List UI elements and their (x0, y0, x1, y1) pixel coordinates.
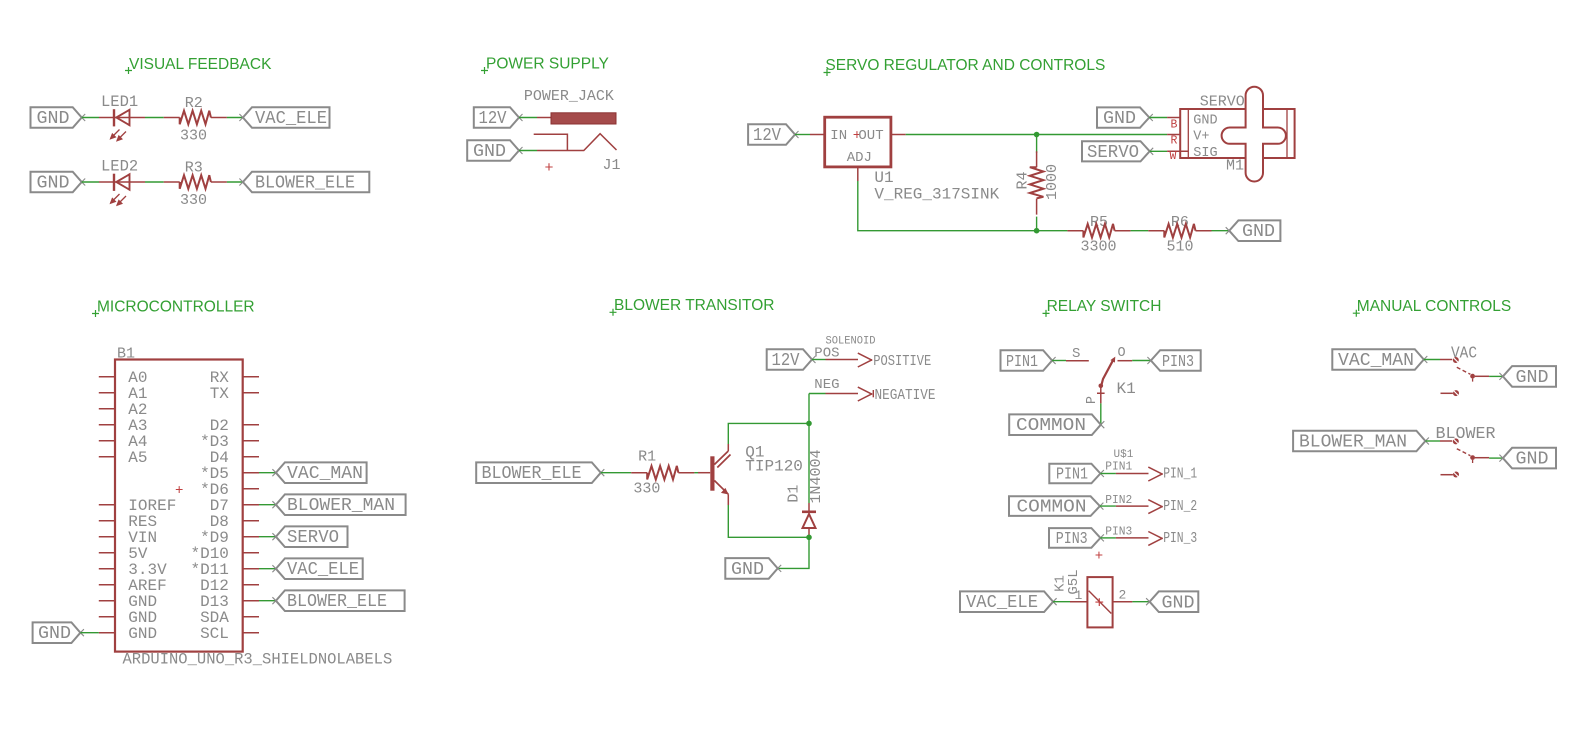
LED LED2 (99, 158, 145, 207)
net flag VAC_MAN (switch) (1332, 349, 1427, 371)
section title RELAY SWITCH (1043, 298, 1162, 317)
svg-text:PIN3: PIN3 (1056, 530, 1088, 549)
svg-text:MANUAL CONTROLS: MANUAL CONTROLS (1357, 298, 1511, 315)
supply flag 12V (solenoid positive) (767, 349, 816, 371)
servo connector M1 SERVO (1170, 94, 1295, 175)
svg-text:J1: J1 (603, 157, 621, 174)
svg-text:S: S (1072, 346, 1080, 362)
svg-text:330: 330 (180, 192, 207, 209)
svg-text:SCL: SCL (200, 625, 229, 643)
wire switch to GND (1489, 375, 1503, 377)
wire R6 to GND (1212, 230, 1230, 232)
transistor Q1 TIP120 (698, 443, 803, 505)
svg-text:GND: GND (38, 624, 71, 644)
svg-text:COMMON: COMMON (1016, 416, 1086, 436)
wire 12V to power jack (519, 117, 551, 119)
relay switch contacts K1 (1085, 346, 1136, 404)
wire 12V to U1 IN (795, 134, 825, 136)
svg-text:NEG: NEG (814, 377, 839, 393)
net flag BLOWER_ELE (to Q1 base) (476, 462, 604, 484)
svg-text:BLOWER TRANSITOR: BLOWER TRANSITOR (614, 297, 774, 314)
svg-text:12V: 12V (772, 351, 800, 371)
svg-text:BLOWER_ELE: BLOWER_ELE (255, 174, 355, 194)
svg-text:PIN3: PIN3 (1162, 353, 1194, 372)
wire GND to servo B pin (1149, 117, 1180, 119)
pin arrow POSITIVE (858, 353, 932, 370)
pin PIN1 of U$1 (1100, 460, 1197, 483)
net flag SERVO (servo signal) (1082, 141, 1153, 163)
svg-text:GND: GND (1516, 450, 1549, 470)
svg-text:MICROCONTROLLER: MICROCONTROLLER (97, 298, 255, 315)
wire SERVO to servo SIG pin (1150, 150, 1189, 152)
svg-text:VAC_ELE: VAC_ELE (287, 560, 359, 580)
net flag PIN1 (switch S) (1001, 350, 1056, 372)
svg-text:B: B (1171, 119, 1178, 132)
wire R4 to bottom junction (1036, 217, 1038, 231)
connector U$1 label (1114, 449, 1134, 461)
svg-text:3300: 3300 (1081, 239, 1117, 256)
svg-text:12V: 12V (753, 126, 781, 146)
junction node (collector / NEG / D1) (806, 421, 812, 427)
junction node (emitter / D1 / GND) (806, 535, 812, 541)
ground flag GND (power jack) (467, 140, 522, 162)
svg-text:NEGATIVE: NEGATIVE (875, 388, 936, 404)
pin arrow NEGATIVE (858, 387, 936, 404)
ground flag GND (Q1 emitter) (725, 558, 781, 580)
svg-text:GND: GND (473, 142, 506, 162)
ground flag GND (to LED1) (31, 107, 86, 129)
svg-text:R3: R3 (185, 160, 203, 177)
svg-text:K1: K1 (1117, 380, 1136, 398)
svg-text:BLOWER_ELE: BLOWER_ELE (482, 464, 582, 484)
ground flag GND (BLOWER switch) (1499, 448, 1556, 470)
svg-text:PIN2: PIN2 (1105, 493, 1132, 507)
svg-text:COMMON: COMMON (1017, 497, 1087, 517)
wire junction to GND (778, 537, 809, 568)
svg-text:LED1: LED1 (101, 93, 138, 111)
svg-text:1N4004: 1N4004 (808, 449, 825, 503)
svg-text:TX: TX (210, 385, 230, 403)
svg-text:A5: A5 (128, 449, 147, 467)
wire R5 to R6 (1131, 230, 1149, 232)
section title BLOWER TRANSITOR (610, 297, 775, 316)
svg-text:ADJ: ADJ (847, 150, 872, 166)
switch VAC (manual) (1441, 343, 1490, 396)
node POS wire to solenoid positive (812, 346, 858, 362)
svg-text:VAC_MAN: VAC_MAN (1338, 351, 1414, 371)
svg-text:+: + (1095, 549, 1103, 565)
svg-text:GND: GND (1242, 222, 1275, 242)
wire junction to R5 (1037, 230, 1068, 232)
diode D1 1N4004 (786, 449, 825, 537)
svg-text:+: + (1095, 595, 1105, 613)
wire BLOWER_ELE to R1 (601, 472, 631, 474)
junction node (ADJ / R4 / R5) (1034, 228, 1040, 234)
wire LED2 to R3 (145, 181, 164, 183)
svg-text:D1: D1 (786, 485, 803, 503)
wire coil pin 2 to GND (1113, 601, 1150, 603)
wire LED1 to R2 (145, 117, 164, 119)
microcontroller B1 ARDUINO_UNO_R3_SHIELDNOLABELS (115, 346, 392, 669)
svg-text:SIG: SIG (1193, 146, 1217, 161)
svg-text:GND: GND (1162, 594, 1195, 614)
svg-text:O: O (1118, 346, 1126, 361)
net flag VAC_ELE (B1) (272, 558, 362, 580)
resistor R4 1000 (1015, 151, 1062, 214)
wire R1 to Q1 base (694, 472, 698, 474)
net flag BLOWER_ELE (239, 172, 369, 194)
svg-text:POSITIVE: POSITIVE (873, 354, 931, 370)
svg-text:PIN3: PIN3 (1105, 525, 1132, 539)
svg-text:TIP120: TIP120 (745, 457, 803, 475)
svg-text:1000: 1000 (1044, 164, 1061, 200)
resistor R2 (164, 95, 227, 145)
wire R2 to VAC_ELE (227, 117, 243, 119)
wire GND to LED1 (82, 117, 99, 119)
svg-text:2: 2 (1119, 588, 1127, 603)
svg-text:BLOWER_MAN: BLOWER_MAN (287, 496, 395, 516)
svg-text:V+: V+ (1193, 130, 1209, 145)
wire U1 OUT to junction and servo V+ (906, 134, 1180, 136)
svg-text:GND: GND (1103, 109, 1136, 129)
svg-text:GND: GND (731, 560, 764, 580)
svg-text:SERVO REGULATOR AND CONTROLS: SERVO REGULATOR AND CONTROLS (825, 57, 1105, 74)
wire junction to D1 (808, 423, 810, 503)
connector J1 POWER_JACK (524, 88, 621, 177)
wire switch to GND (1489, 457, 1503, 459)
resistor R3 (164, 160, 227, 210)
svg-text:1: 1 (1075, 588, 1083, 603)
ground flag GND (relay coil) (1146, 591, 1198, 613)
net flag VAC_ELE (relay coil) (960, 591, 1057, 613)
ground flag GND (VAC switch) (1499, 366, 1556, 388)
svg-text:GND: GND (37, 174, 70, 194)
svg-text:SERVO: SERVO (1087, 143, 1139, 163)
wire GND to LED2 (82, 181, 99, 183)
svg-text:PIN_2: PIN_2 (1163, 499, 1197, 515)
ground flag GND (B1 bottom left) (33, 622, 84, 644)
section title POWER SUPPLY (481, 55, 609, 74)
net flag PIN1 (header) (1049, 464, 1104, 485)
svg-text:U1: U1 (874, 169, 893, 187)
ground flag GND (after R6) (1226, 220, 1281, 242)
wire U1 ADJ down and across (858, 181, 1037, 231)
svg-text:GND: GND (128, 625, 157, 643)
wire switch O to PIN3 (1132, 360, 1151, 362)
svg-text:R: R (1171, 134, 1178, 147)
svg-text:PIN_3: PIN_3 (1163, 531, 1197, 547)
svg-text:12V: 12V (479, 109, 507, 129)
supply flag 12V (regulator input) (748, 124, 798, 146)
junction node (OUT / R4) (1034, 132, 1040, 138)
label SOLENOID (826, 335, 876, 347)
wire *D9 to SERVO (259, 536, 275, 538)
wire GND to B1 (80, 632, 98, 634)
pin PIN2 of U$1 (1100, 493, 1197, 515)
svg-text:VISUAL FEEDBACK: VISUAL FEEDBACK (129, 56, 272, 73)
svg-text:330: 330 (633, 481, 660, 498)
section title SERVO REGULATOR AND CONTROLS (824, 57, 1106, 76)
pin stubs B1 left (99, 377, 115, 633)
svg-text:GND: GND (1193, 113, 1217, 128)
wire *D11 to VAC_ELE (259, 568, 275, 570)
svg-text:GND: GND (1516, 368, 1549, 388)
wire VAC_ELE to coil pin 1 (1053, 601, 1087, 603)
svg-text:BLOWER: BLOWER (1436, 424, 1496, 443)
svg-text:R4: R4 (1015, 171, 1032, 189)
svg-text:ARDUINO_UNO_R3_SHIELDNOLABELS: ARDUINO_UNO_R3_SHIELDNOLABELS (123, 651, 393, 669)
net flag VAC_ELE (239, 107, 329, 129)
wire Q1 emitter to junction (728, 505, 809, 537)
net flag BLOWER_ELE (B1) (272, 590, 404, 612)
svg-text:SERVO: SERVO (287, 528, 339, 548)
svg-text:R1: R1 (638, 449, 656, 466)
voltage regulator U1 V_REG_317SINK (825, 117, 1000, 203)
pin PIN3 of U$1 (1095, 525, 1197, 565)
resistor R6 510 (1148, 214, 1211, 256)
wire NEG vertical (808, 394, 810, 424)
svg-text:VAC_ELE: VAC_ELE (966, 593, 1038, 613)
svg-text:330: 330 (180, 128, 207, 145)
resistor R5 3300 (1067, 214, 1130, 256)
wire D13 to BLOWER_ELE (259, 600, 275, 602)
pin names B1 left column (128, 369, 176, 643)
svg-text:BLOWER_MAN: BLOWER_MAN (1299, 433, 1407, 453)
svg-text:BLOWER_ELE: BLOWER_ELE (287, 592, 387, 612)
wire switch P to COMMON (1100, 403, 1102, 424)
wire D7 to BLOWER_MAN (259, 504, 275, 506)
wire junction to R4 (1036, 135, 1038, 154)
resistor R1 330 (631, 449, 694, 498)
wire *D5 to VAC_MAN (259, 472, 275, 474)
svg-text:PIN1: PIN1 (1105, 460, 1132, 474)
switch BLOWER (manual) (1436, 424, 1496, 478)
pin names B1 right column (190, 369, 229, 643)
relay coil K1 G5L (1053, 569, 1127, 627)
net flag BLOWER_MAN (B1) (272, 494, 405, 516)
svg-text:510: 510 (1167, 239, 1194, 256)
wire GND to jack pin (519, 150, 556, 152)
svg-text:R2: R2 (185, 95, 203, 112)
svg-text:PIN1: PIN1 (1006, 353, 1038, 372)
node NEG wire to solenoid negative (809, 377, 858, 393)
LED LED1 (99, 93, 145, 142)
svg-text:RELAY SWITCH: RELAY SWITCH (1047, 298, 1162, 315)
svg-text:V_REG_317SINK: V_REG_317SINK (874, 186, 999, 204)
svg-text:VAC_MAN: VAC_MAN (287, 464, 363, 484)
net flag BLOWER_MAN (switch) (1293, 431, 1429, 453)
section title MICROCONTROLLER (92, 298, 255, 317)
svg-text:LED2: LED2 (101, 158, 138, 176)
net flag SERVO (B1) (272, 526, 347, 548)
section title MANUAL CONTROLS (1353, 298, 1511, 317)
supply flag 12V (474, 107, 523, 129)
net flag PIN3 (switch O) (1147, 350, 1200, 372)
svg-text:P: P (1085, 396, 1100, 404)
wire R3 to BLOWER_ELE (227, 181, 243, 183)
svg-text:POWER SUPPLY: POWER SUPPLY (486, 55, 609, 72)
net flag COMMON (header) (1009, 496, 1103, 517)
pin stubs B1 right (243, 377, 259, 633)
svg-text:IN: IN (830, 128, 847, 144)
svg-text:+: + (545, 160, 554, 177)
svg-text:OUT: OUT (858, 128, 883, 144)
svg-text:GND: GND (37, 109, 70, 129)
svg-text:VAC_ELE: VAC_ELE (255, 109, 327, 129)
svg-text:PIN_1: PIN_1 (1163, 467, 1197, 483)
wire BLOWER_MAN to switch contact (1425, 440, 1452, 442)
net flag COMMON (switch pole) (1009, 414, 1104, 436)
ground flag GND (to LED2) (31, 172, 86, 194)
section title VISUAL FEEDBACK (125, 56, 272, 74)
svg-text:W: W (1170, 150, 1177, 163)
svg-text:M1: M1 (1226, 158, 1244, 175)
svg-text:POWER_JACK: POWER_JACK (524, 88, 614, 105)
ground flag GND (servo) (1097, 107, 1153, 129)
net flag VAC_MAN (B1) (272, 462, 366, 484)
wire VAC_MAN to switch contact (1424, 359, 1452, 361)
wire Q1 collector to junction (728, 423, 809, 444)
servo horn M1 (cross shape) (1222, 87, 1286, 182)
wire PIN1 to switch S contact (1052, 346, 1089, 362)
net flag PIN3 (header) (1049, 528, 1104, 549)
svg-text:PIN1: PIN1 (1056, 466, 1088, 485)
